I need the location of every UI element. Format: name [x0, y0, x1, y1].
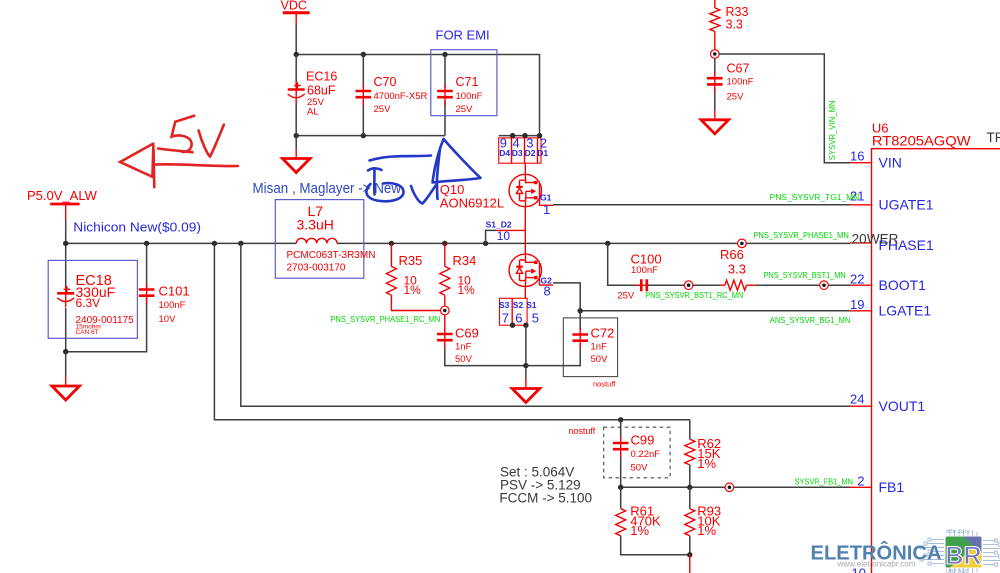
resistor R62 [685, 420, 721, 488]
svg-text:TR: TR [987, 130, 1000, 145]
svg-text:0.22nF: 0.22nF [631, 449, 661, 460]
svg-text:CAN 6T: CAN 6T [76, 329, 99, 336]
handwriting blue scribble (curve+T) [368, 156, 431, 195]
transistor Q10 bottom FET [509, 254, 553, 286]
capacitor C67 [707, 58, 754, 110]
svg-text:R66: R66 [720, 247, 744, 262]
wire to pin 10 (cut) [689, 555, 691, 573]
node EC18/C101 gnd junction [63, 349, 68, 354]
svg-text:FOR EMI: FOR EMI [436, 27, 490, 42]
power symbol P5.0V_ALW [27, 188, 98, 220]
svg-text:24: 24 [850, 391, 864, 406]
svg-text:G1: G1 [540, 192, 552, 202]
wire P5 rail down through bus to EC18 [65, 220, 67, 288]
svg-text:4700nF-X5R: 4700nF-X5R [374, 91, 428, 102]
resistor R34 [440, 243, 477, 306]
svg-text:dBb dUce: dBb dUce [946, 529, 970, 535]
ground [714, 110, 716, 120]
handwriting blue scribble (triangle) [433, 139, 481, 199]
wire FB upper net (outer loop) [214, 243, 689, 419]
node S1_D2 stub [486, 220, 526, 244]
ground [525, 379, 527, 389]
svg-text:FB1: FB1 [879, 479, 905, 495]
svg-text:R35: R35 [399, 253, 423, 268]
node LGATE1/C72 junction [578, 308, 583, 313]
node ring junction R33/C67 [711, 50, 720, 59]
svg-text:Nichicon New($0.09): Nichicon New($0.09) [73, 220, 201, 235]
wire source to ground [525, 325, 527, 379]
node ring junction PHASE1 [738, 239, 747, 248]
node ring junction FB1 [725, 483, 734, 492]
wire G2 to LGATE1 net [553, 283, 580, 311]
pin 24 VOUT1 [850, 391, 925, 414]
svg-text:100nF: 100nF [631, 265, 658, 276]
capacitor C70 [356, 55, 428, 136]
node drain pins junctions [510, 133, 542, 138]
resistor R33 [710, 0, 749, 50]
capacitor C99 (nostuff, dashed box) [568, 420, 670, 488]
resistor R93 [685, 487, 721, 555]
svg-text:1%: 1% [630, 523, 649, 538]
component label Q10 AON6912L [440, 182, 504, 210]
wire main bus (PHASE1 to L7 to rail) [66, 242, 850, 244]
pin 2 FB1 [850, 474, 904, 496]
transistor Q10 top FET [509, 174, 553, 206]
svg-text:WER: WER [867, 232, 899, 247]
svg-text:PNS_SYSVR_PHASE1_MN: PNS_SYSVR_PHASE1_MN [753, 231, 849, 240]
node bottom bus junctions [294, 133, 366, 138]
resistor R66 [720, 247, 756, 290]
wire FB1 net [621, 486, 850, 488]
svg-text:UGATE1: UGATE1 [879, 197, 934, 213]
svg-text:1%: 1% [697, 523, 716, 538]
handwriting red arrow [120, 144, 238, 188]
resistor R35 [386, 243, 440, 310]
wire VOUT1 net (inner loop) [241, 243, 850, 406]
wire VIN net [719, 54, 850, 163]
svg-text:100nF: 100nF [727, 77, 754, 88]
svg-text:C99: C99 [631, 432, 655, 447]
svg-text:LGATE1: LGATE1 [879, 303, 932, 319]
wire drain box to FET [524, 163, 526, 174]
svg-text:AON6912L: AON6912L [440, 196, 504, 211]
svg-text:D2: D2 [525, 148, 536, 158]
pin 16 VIN [850, 148, 902, 170]
pin 21 UGATE1 [850, 189, 934, 213]
capacitor C69 [437, 315, 526, 366]
svg-text:2703-003170: 2703-003170 [287, 262, 346, 273]
svg-text:C67: C67 [727, 62, 750, 76]
svg-text:BR: BR [946, 542, 982, 570]
svg-text:50V: 50V [591, 354, 609, 365]
wire ring to pin22 [828, 284, 850, 286]
svg-text:16: 16 [850, 148, 864, 163]
svg-text:25V: 25V [617, 291, 635, 302]
svg-text:R34: R34 [453, 253, 477, 268]
svg-text:22: 22 [850, 271, 864, 286]
svg-text:1: 1 [543, 202, 550, 217]
svg-text:S3: S3 [499, 300, 510, 310]
svg-text:C101: C101 [159, 284, 190, 299]
node outer loop / C99 junction [618, 417, 623, 422]
capacitor C71 [437, 55, 482, 136]
svg-text:3.3: 3.3 [728, 261, 746, 276]
wire top bus [296, 55, 539, 136]
svg-text:7: 7 [502, 311, 509, 326]
svg-text:100nF: 100nF [159, 300, 186, 311]
svg-text:1nF: 1nF [591, 341, 608, 352]
svg-text:P5.0V_ALW: P5.0V_ALW [27, 188, 98, 203]
node ring junction PHASE1_RC [441, 306, 450, 315]
svg-text:RT8205AGQW: RT8205AGQW [872, 133, 972, 149]
ground [282, 136, 310, 173]
resistor R61 [616, 487, 690, 555]
svg-text:68uF: 68uF [307, 84, 336, 98]
svg-text:BOOT1: BOOT1 [879, 277, 927, 293]
pin 22 BOOT1 [850, 271, 926, 293]
svg-text:PCMC063T-3R3MN: PCMC063T-3R3MN [287, 250, 376, 261]
wire R66 to BOOT1 [756, 284, 820, 286]
IC U6 outline [872, 149, 1000, 573]
handwriting blue scribble (loop around New) [366, 183, 403, 201]
svg-text:50V: 50V [455, 354, 473, 365]
svg-text:VOUT1: VOUT1 [879, 398, 926, 414]
svg-text:C72: C72 [591, 326, 615, 341]
svg-text:6: 6 [515, 311, 522, 326]
svg-text:PNS_SYSVR_PHASE1_RC_MN: PNS_SYSVR_PHASE1_RC_MN [330, 315, 440, 324]
svg-text:PNS_SYSVR_TG1_MN: PNS_SYSVR_TG1_MN [770, 193, 860, 202]
svg-text:FCCM -> 5.100: FCCM -> 5.100 [499, 491, 592, 506]
pin G1 / 1 [540, 192, 552, 217]
handwriting blue scribble (V check) [411, 185, 437, 204]
svg-text:D4: D4 [499, 148, 510, 158]
handwriting red 5 [172, 116, 195, 152]
wire S1_D2 between FETs [524, 207, 526, 255]
ground [52, 352, 80, 400]
svg-text:AL: AL [307, 107, 319, 118]
wire VDC to top bus [295, 24, 297, 55]
svg-text:S2: S2 [513, 300, 524, 310]
wire LGATE1 net [580, 310, 850, 312]
capacitor EC16 [288, 55, 338, 136]
svg-text:10V: 10V [159, 314, 177, 325]
svg-text:nostuff: nostuff [593, 380, 616, 389]
svg-text:VIN: VIN [879, 155, 902, 171]
svg-text:2: 2 [857, 474, 864, 489]
transistor Q10 drain pin box (9 4 3 2 / D4 D3 D2 D1) [499, 136, 549, 164]
svg-text:25V: 25V [456, 104, 474, 115]
svg-text:3.3uH: 3.3uH [297, 217, 334, 233]
svg-text:8: 8 [544, 284, 551, 299]
svg-text:6.3V: 6.3V [76, 296, 101, 310]
wire C100 to ring [648, 284, 684, 286]
node FB junctions [618, 485, 693, 490]
wire PHASE1 to C100 [608, 243, 639, 285]
svg-text:D1: D1 [537, 148, 548, 158]
node R61/R93 gnd junction [687, 552, 692, 557]
svg-text:S1: S1 [526, 300, 537, 310]
svg-text:C70: C70 [374, 75, 397, 89]
node main bus junctions [63, 241, 610, 246]
node gnd bus junction [523, 363, 528, 368]
svg-text:PNS_SYSVR_BST1_MN: PNS_SYSVR_BST1_MN [764, 271, 846, 280]
svg-text:SYSVR_VIN_MN: SYSVR_VIN_MN [828, 100, 837, 160]
svg-text:www.eletronicabr.com: www.eletronicabr.com [837, 559, 916, 568]
svg-text:50V: 50V [631, 462, 649, 473]
node ring junction BST1 [820, 281, 829, 290]
svg-text:20: 20 [852, 232, 867, 247]
svg-text:C71: C71 [456, 75, 479, 89]
svg-text:100nF: 100nF [456, 91, 483, 102]
wire ring to R66 [693, 284, 720, 286]
svg-text:D3: D3 [512, 148, 523, 158]
capacitor C100 [617, 252, 661, 302]
svg-text:EC16: EC16 [306, 70, 337, 84]
svg-text:nostuff: nostuff [568, 426, 595, 436]
pin G2 / 8 [541, 275, 553, 298]
pin 20 PHASE1 [850, 237, 934, 253]
svg-text:19: 19 [850, 297, 864, 312]
svg-text:VDC: VDC [281, 0, 307, 13]
FOR EMI note box [431, 27, 497, 115]
transistor Q10 source pin box (S3 S2 S1 / 7 6 5) [499, 298, 539, 325]
svg-text:5: 5 [532, 311, 539, 326]
svg-text:1%: 1% [458, 283, 476, 297]
wire caps bottom bus [296, 135, 445, 137]
svg-text:ANS_SYSVR_BG1_MN: ANS_SYSVR_BG1_MN [770, 316, 851, 325]
svg-text:1nF: 1nF [455, 341, 472, 352]
capacitor EC18 [48, 260, 137, 351]
node top bus junctions [294, 52, 448, 57]
node ring junction BST1_RC [684, 281, 693, 290]
svg-text:1%: 1% [697, 456, 716, 471]
wire bottom FET source to pin box [524, 287, 526, 299]
capacitor C101 [66, 243, 190, 351]
svg-text:Misan , Maglayer -> New: Misan , Maglayer -> New [253, 180, 402, 197]
component label U6 RT8205AGQW [872, 120, 972, 148]
svg-text:10: 10 [497, 229, 511, 243]
svg-text:25V: 25V [374, 104, 392, 115]
inductor L7 [275, 200, 375, 279]
power symbol VDC [281, 0, 310, 24]
svg-text:C69: C69 [455, 326, 479, 341]
svg-text:3.3: 3.3 [726, 18, 743, 32]
svg-text:PNS_SYSVR_BST1_RC_MN: PNS_SYSVR_BST1_RC_MN [645, 291, 743, 300]
pin 19 LGATE1 [850, 297, 931, 319]
handwriting red v [199, 125, 224, 157]
text POWER (watermark, pin 20 merged) [852, 232, 899, 247]
svg-text:1%: 1% [404, 283, 422, 297]
svg-text:SYSVR_FB1_MN: SYSVR_FB1_MN [795, 477, 854, 486]
capacitor C72 (nostuff) [526, 311, 618, 389]
logo ELETRONICA BR [811, 529, 1000, 573]
wire UGATE1 net [553, 204, 850, 206]
node source pins junctions [510, 323, 529, 328]
svg-text:25V: 25V [727, 92, 745, 103]
